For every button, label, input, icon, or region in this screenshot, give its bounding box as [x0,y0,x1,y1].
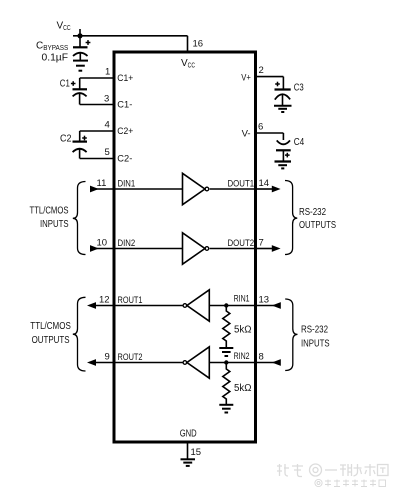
svg-text:3: 3 [104,94,109,105]
svg-text:C3: C3 [294,83,304,94]
svg-text:ROUT2: ROUT2 [118,352,143,363]
svg-text:RIN2: RIN2 [234,351,250,362]
svg-text:8: 8 [259,352,264,363]
svg-text:INPUTS: INPUTS [40,219,69,230]
svg-text:C1: C1 [60,79,70,90]
svg-text:5kΩ: 5kΩ [234,383,252,394]
svg-text:9: 9 [105,352,110,363]
svg-text:C1-: C1- [117,100,132,111]
svg-text:V-: V- [242,129,251,140]
svg-text:DOUT1: DOUT1 [228,179,255,190]
svg-text:7: 7 [259,238,264,249]
svg-text:14: 14 [259,178,270,189]
svg-text:C4: C4 [294,137,305,148]
svg-text:TTL/CMOS: TTL/CMOS [30,206,69,217]
svg-text:12: 12 [99,295,110,306]
svg-text:V+: V+ [241,72,251,83]
svg-text:ROUT1: ROUT1 [118,295,143,306]
svg-text:C2: C2 [60,134,72,145]
svg-text:5kΩ: 5kΩ [234,325,252,336]
svg-text:1: 1 [105,67,110,78]
svg-text:11: 11 [97,178,107,189]
svg-text:C2+: C2+ [117,126,133,137]
svg-text:C1+: C1+ [117,73,133,84]
svg-text:0.1µF: 0.1µF [42,53,69,64]
svg-text:DIN2: DIN2 [118,238,136,249]
svg-text:13: 13 [259,295,270,306]
svg-text:GND: GND [180,429,197,440]
svg-text:OUTPUTS: OUTPUTS [32,335,70,346]
svg-text:DOUT2: DOUT2 [228,238,255,249]
svg-text:2: 2 [259,65,264,76]
svg-text:TTL/CMOS: TTL/CMOS [30,321,71,332]
svg-text:16: 16 [193,39,204,50]
svg-text:5: 5 [105,147,110,158]
svg-text:DIN1: DIN1 [118,179,136,190]
svg-text:6: 6 [258,122,263,133]
svg-text:4: 4 [105,120,110,131]
svg-text:C2-: C2- [117,154,132,165]
svg-text:10: 10 [97,238,108,249]
svg-text:15: 15 [191,447,202,458]
svg-text:RS-232: RS-232 [299,207,326,218]
svg-text:RIN1: RIN1 [234,294,250,305]
svg-text:RS-232: RS-232 [301,325,328,336]
svg-text:INPUTS: INPUTS [301,338,330,349]
svg-text:OUTPUTS: OUTPUTS [299,220,336,231]
